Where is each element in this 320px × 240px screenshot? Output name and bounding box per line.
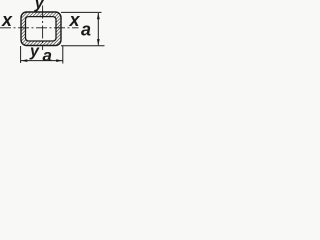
svg-text:x: x — [69, 10, 81, 30]
svg-text:y: y — [29, 43, 40, 60]
svg-text:x: x — [1, 10, 13, 30]
svg-text:a: a — [81, 20, 91, 40]
svg-text:y: y — [34, 0, 45, 12]
svg-text:a: a — [43, 46, 52, 65]
